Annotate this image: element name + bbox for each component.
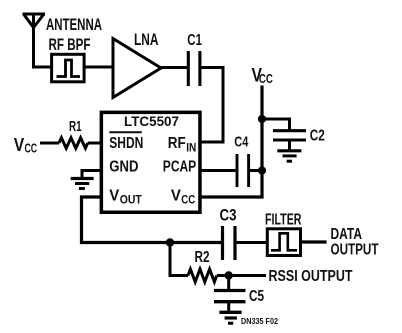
capacitor C4 — [237, 154, 249, 187]
wire PCAP to C4 — [200, 169, 236, 172]
svg-text:LTC5507: LTC5507 — [124, 113, 179, 129]
svg-text:PCAP: PCAP — [163, 159, 197, 176]
FILTER box — [267, 229, 300, 256]
svg-text:C3: C3 — [220, 207, 237, 225]
node junction dot (C4 / VCC rail) — [258, 166, 266, 174]
wire VCC to R1 — [40, 142, 59, 145]
FILTER pulse icon — [271, 233, 297, 250]
svg-text:RF BPF: RF BPF — [49, 36, 91, 54]
svg-text:SHDN: SHDN — [109, 135, 143, 152]
wire dot to C5 — [227, 276, 230, 290]
wire to C2 — [262, 119, 290, 130]
wire VOUT down and right — [82, 197, 222, 243]
svg-text:C2: C2 — [310, 127, 325, 144]
antenna — [23, 14, 46, 28]
resistor R1 — [59, 138, 88, 149]
svg-text:V: V — [109, 188, 119, 205]
svg-text:OUT: OUT — [120, 192, 143, 206]
wire antenna to RF BPF — [34, 14, 51, 67]
RF BPF filter box — [52, 54, 85, 82]
svg-text:GND: GND — [109, 159, 138, 176]
ground (GND pin) — [71, 179, 94, 189]
wire C4 to VCC rail — [250, 169, 260, 172]
capacitor C5 — [214, 291, 246, 302]
ground (C5) — [219, 312, 241, 323]
RF BPF pulse icon — [57, 60, 81, 77]
svg-text:R1: R1 — [69, 118, 82, 135]
IC U1 LTC5507 box — [101, 112, 200, 212]
svg-text:DN335 F02: DN335 F02 — [241, 317, 278, 326]
wire C2 to ground — [288, 142, 291, 150]
ground (C2) — [277, 151, 301, 161]
wire down to R2 — [170, 243, 188, 276]
wire FILTER to DATA OUTPUT — [301, 240, 327, 243]
node junction dot (R2 / C5) — [225, 271, 233, 279]
svg-text:FILTER: FILTER — [265, 212, 302, 229]
wire VCC rail down to VCC pin — [200, 86, 262, 198]
node junction dot (VOUT / R2) — [166, 238, 174, 246]
node junction dot (VCC / C2) — [258, 115, 266, 123]
svg-text:R2: R2 — [195, 249, 210, 266]
svg-text:CC: CC — [259, 72, 273, 86]
wire C5 to ground — [227, 303, 230, 311]
svg-text:IN: IN — [186, 140, 196, 154]
wire LNA to C1 — [160, 66, 187, 69]
svg-text:C5: C5 — [249, 288, 264, 305]
svg-text:OUTPUT: OUTPUT — [331, 242, 379, 259]
wire GND pin to ground — [82, 171, 101, 178]
svg-text:RSSI OUTPUT: RSSI OUTPUT — [269, 268, 353, 285]
svg-text:CC: CC — [181, 192, 195, 206]
svg-text:ANTENNA: ANTENNA — [46, 16, 102, 34]
LNA amplifier triangle — [113, 39, 161, 98]
SHDN overline — [109, 131, 142, 133]
wire C3 to FILTER — [237, 241, 267, 244]
capacitor C1 — [188, 51, 200, 86]
wire C1 to RFIN pin — [201, 68, 223, 143]
svg-text:V: V — [171, 188, 181, 205]
capacitor C2 — [273, 131, 306, 140]
svg-text:LNA: LNA — [134, 31, 159, 49]
wire R2 to RSSI OUTPUT — [217, 274, 266, 277]
wire R1 to SHDN pin — [88, 142, 101, 145]
wire RF BPF to LNA — [86, 66, 115, 69]
svg-text:CC: CC — [25, 142, 38, 156]
svg-text:C1: C1 — [187, 32, 202, 49]
svg-text:C4: C4 — [234, 134, 248, 151]
capacitor C3 — [223, 226, 236, 260]
svg-text:V: V — [14, 134, 25, 155]
resistor R2 — [188, 269, 217, 282]
svg-text:DATA: DATA — [331, 226, 363, 243]
svg-text:RF: RF — [168, 135, 186, 152]
